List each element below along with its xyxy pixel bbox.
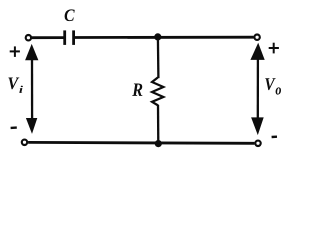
wire bottom bbox=[28, 141, 254, 145]
label R bbox=[132, 83, 142, 95]
wire resistor bottom lead bbox=[157, 105, 160, 144]
resistor R bbox=[152, 78, 163, 106]
Vi arrow head down bbox=[26, 118, 37, 134]
Vi arrow head up bbox=[25, 44, 38, 60]
label Vi bbox=[8, 77, 22, 92]
Vo arrow head up bbox=[250, 43, 264, 60]
wire top-right segment bbox=[75, 36, 254, 39]
Vi arrow shaft bbox=[31, 59, 33, 120]
Vo arrow shaft bbox=[257, 58, 259, 119]
label C bbox=[65, 9, 75, 21]
terminal bottom-left bbox=[22, 140, 27, 145]
terminal top-right bbox=[254, 35, 259, 40]
terminal top-left bbox=[26, 35, 31, 40]
terminal bottom-right bbox=[255, 141, 260, 146]
capacitor C bbox=[65, 30, 74, 45]
wire resistor top lead bbox=[157, 37, 160, 78]
node bottom junction bbox=[155, 140, 162, 147]
minus sign left bbox=[11, 126, 17, 129]
wire top-left segment bbox=[32, 36, 64, 39]
plus sign left bbox=[10, 46, 20, 57]
label Vo bbox=[265, 78, 281, 94]
node top junction bbox=[154, 33, 161, 40]
plus sign right bbox=[269, 43, 279, 54]
Vo arrow head down bbox=[251, 117, 264, 135]
minus sign right bbox=[272, 135, 277, 138]
